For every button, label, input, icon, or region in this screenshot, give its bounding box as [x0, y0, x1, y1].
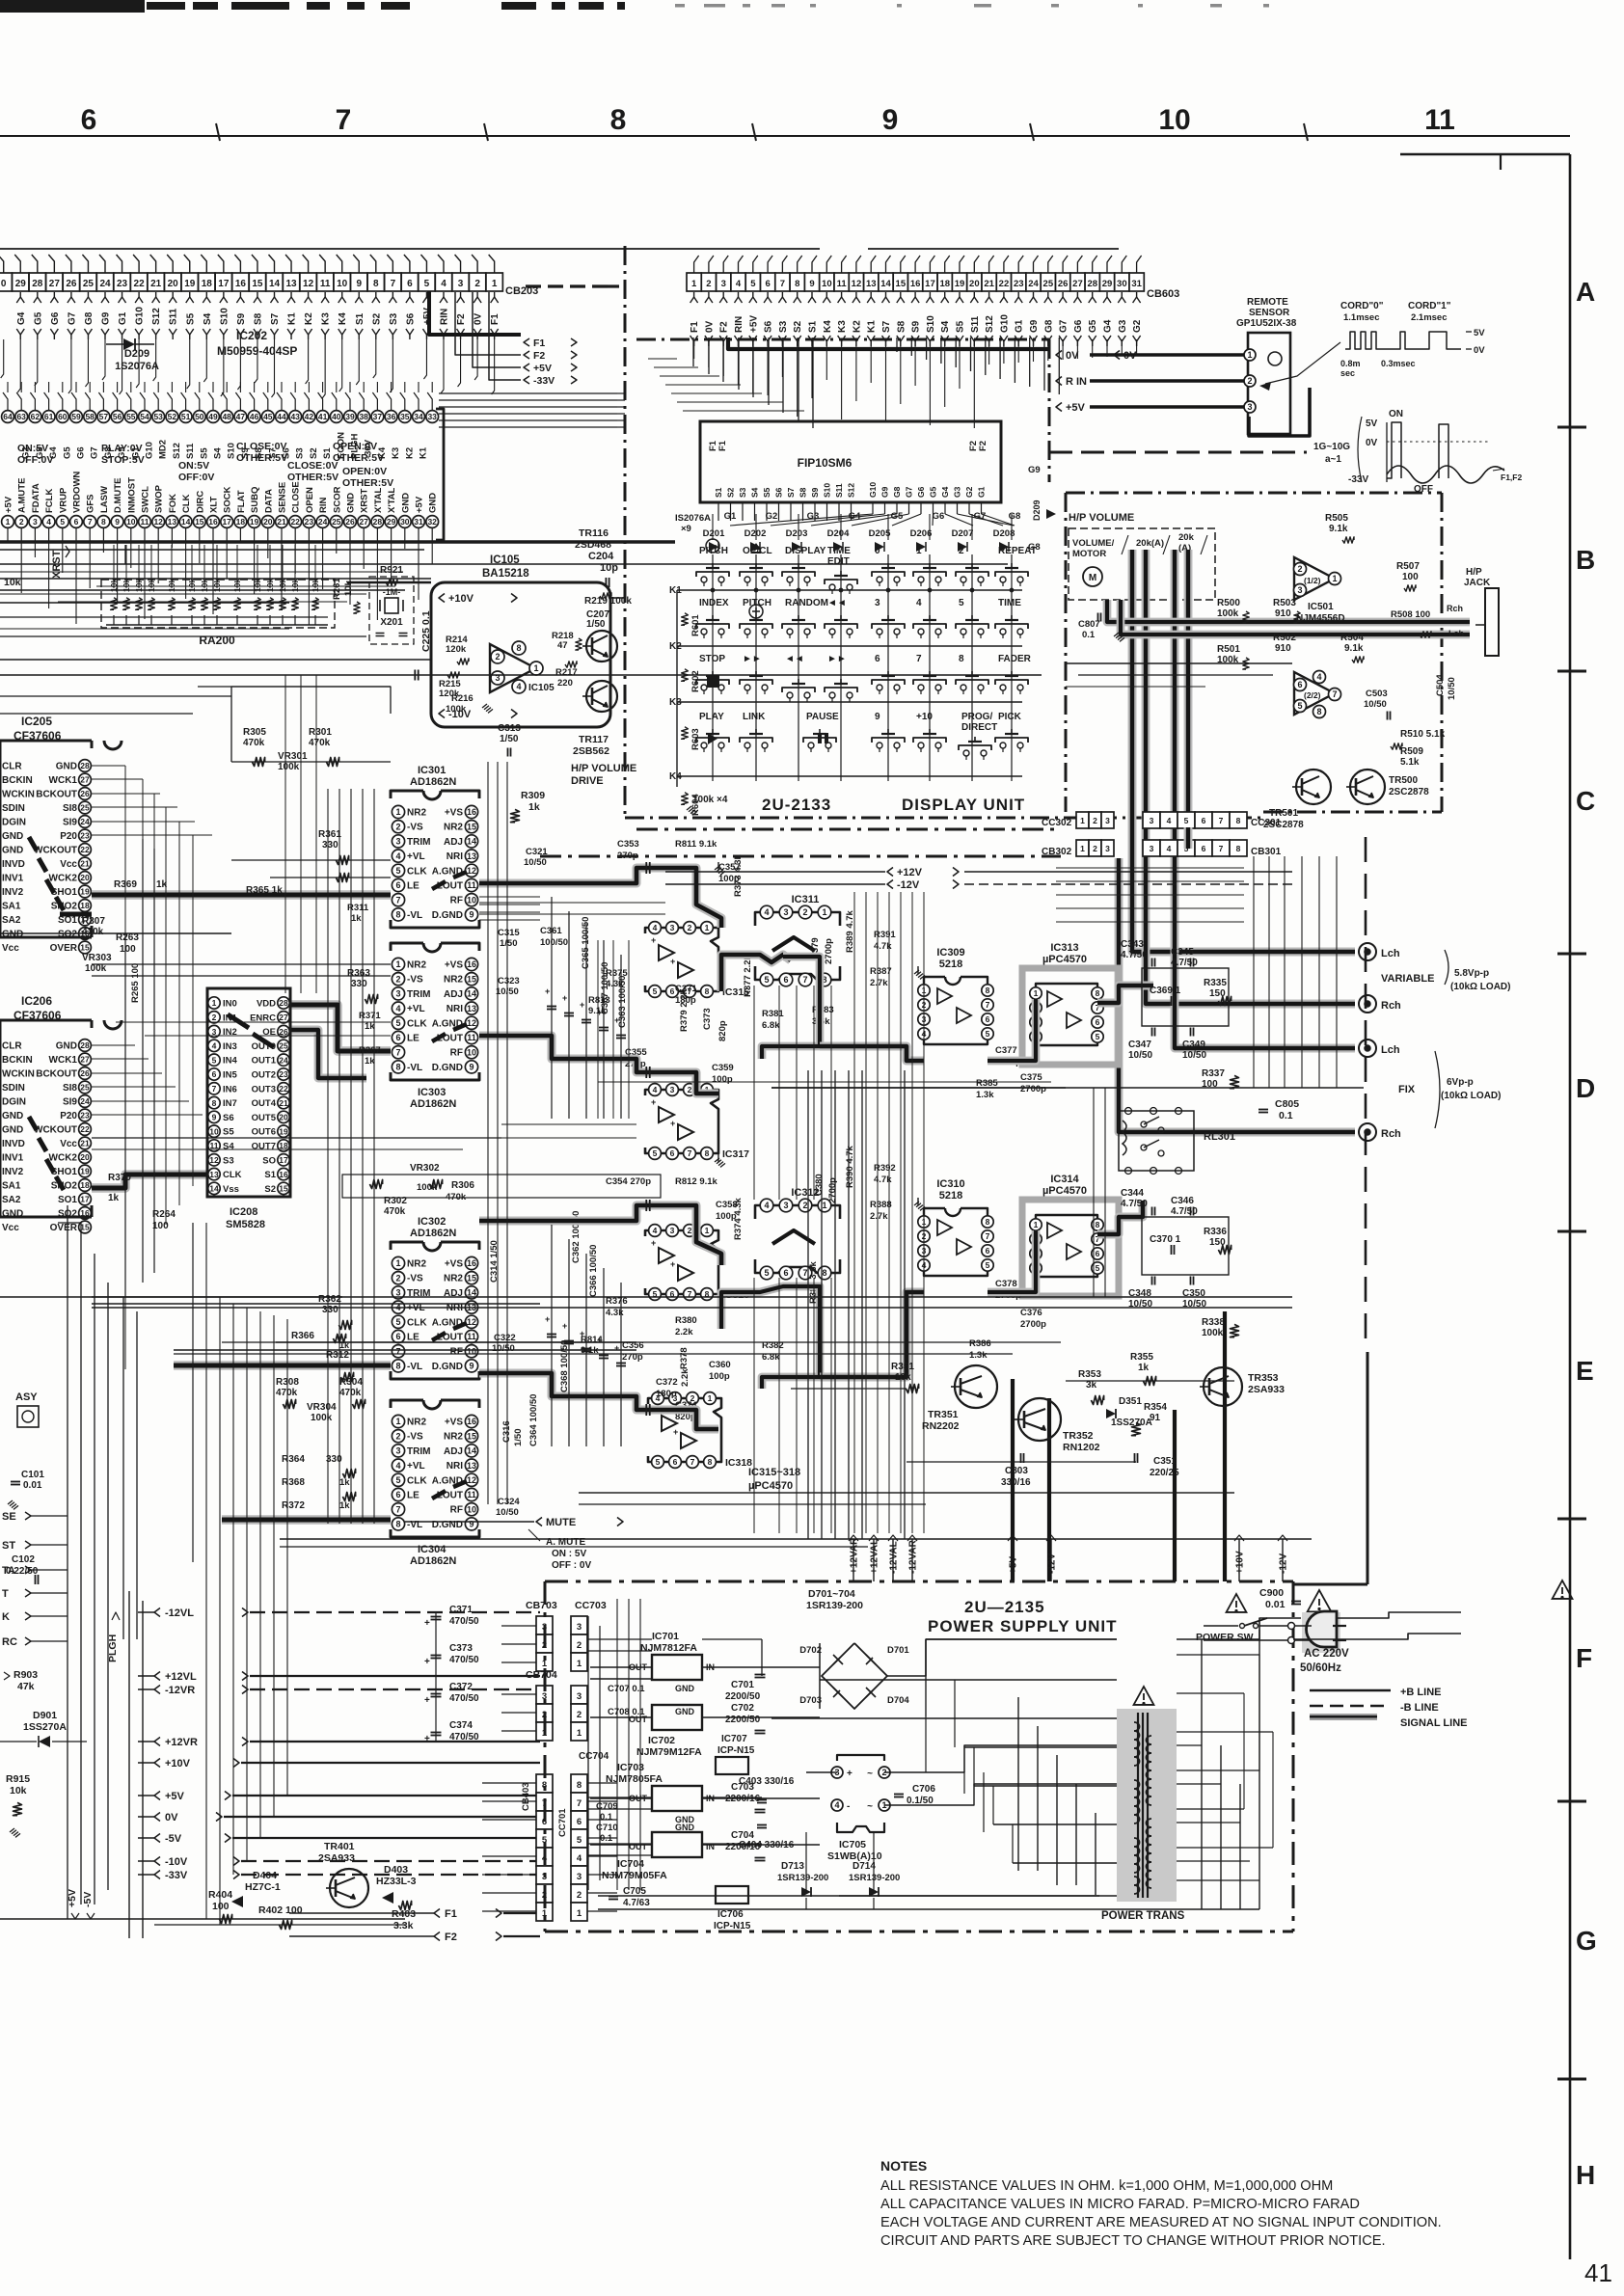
svg-text:G10: G10 [135, 307, 146, 325]
fuse IC706 [716, 1886, 748, 1904]
IC303 AD1862N [391, 943, 423, 951]
svg-text:5: 5 [986, 1260, 990, 1270]
column ruler [0, 135, 1570, 137]
svg-text:R510 5.1k: R510 5.1k [1400, 729, 1446, 740]
svg-text:PLAY:0V: PLAY:0V [101, 443, 143, 454]
svg-text:DATA: DATA [263, 489, 274, 513]
pitch plus symbol [749, 605, 763, 618]
svg-text:1.3k: 1.3k [969, 1350, 988, 1361]
svg-text:16: 16 [467, 1258, 476, 1268]
svg-text:TRIM: TRIM [407, 837, 430, 848]
svg-text:100k: 100k [1217, 655, 1239, 665]
svg-text:C101: C101 [21, 1470, 44, 1480]
DAC switch dashes [432, 881, 446, 889]
svg-text:21: 21 [279, 1098, 288, 1108]
svg-text:15: 15 [896, 279, 907, 289]
svg-text:6: 6 [986, 1014, 990, 1024]
svg-text:ADJ: ADJ [444, 1446, 463, 1457]
svg-text:4.7/50: 4.7/50 [1121, 1199, 1148, 1209]
svg-text:IC208: IC208 [230, 1206, 257, 1218]
svg-text:9: 9 [809, 279, 814, 289]
svg-text:CLK: CLK [407, 866, 427, 877]
svg-text:13: 13 [168, 517, 177, 527]
svg-text:INMOST: INMOST [126, 477, 137, 513]
svg-text:R813: R813 [588, 995, 610, 1006]
svg-text:100p: 100p [712, 1074, 733, 1085]
svg-text:+12VR: +12VR [165, 1737, 198, 1748]
svg-text:NJM79M05FA: NJM79M05FA [602, 1870, 667, 1881]
transformer right side wires [1177, 1654, 1259, 1656]
svg-text:S5: S5 [956, 320, 966, 333]
svg-text:OVER: OVER [50, 943, 78, 954]
svg-text:470/50: 470/50 [449, 1693, 479, 1704]
svg-text:1: 1 [492, 279, 498, 289]
svg-text:61: 61 [44, 412, 54, 421]
ground [717, 1154, 719, 1162]
svg-text:2200/50: 2200/50 [725, 1691, 761, 1702]
svg-text:6.8k: 6.8k [762, 1020, 780, 1031]
svg-text:X'TAL: X'TAL [387, 487, 397, 513]
svg-text:G: G [1576, 1926, 1597, 1956]
svg-text:TR351: TR351 [928, 1409, 959, 1420]
svg-text:6: 6 [670, 1148, 675, 1158]
svg-text:0.01: 0.01 [23, 1480, 42, 1491]
svg-text:+: + [673, 1427, 678, 1437]
op-amp IC501 2/2 [1294, 672, 1335, 715]
verticals right of DAC [1253, 856, 1255, 1088]
svg-text:S6: S6 [223, 1113, 234, 1123]
svg-text:C369 1: C369 1 [1150, 986, 1181, 996]
svg-text:8: 8 [1096, 1220, 1100, 1229]
svg-text:18: 18 [80, 901, 90, 910]
svg-text:17: 17 [80, 1195, 90, 1204]
svg-text:2200/50: 2200/50 [725, 1715, 761, 1725]
svg-text:GND: GND [2, 1111, 23, 1121]
svg-text:3: 3 [1150, 844, 1154, 853]
svg-text:RF: RF [450, 1505, 463, 1516]
H/P volume outer box [1065, 493, 1068, 812]
svg-text:24: 24 [279, 1055, 288, 1065]
switch IC IC312 [755, 1205, 840, 1219]
svg-text:M: M [1089, 573, 1096, 583]
svg-text:-12VR: -12VR [165, 1685, 195, 1696]
svg-text:12: 12 [467, 1475, 476, 1485]
svg-text:2: 2 [19, 517, 24, 527]
psu to power switch wires [1259, 1618, 1301, 1639]
svg-text:IC303: IC303 [418, 1087, 446, 1098]
svg-text:29: 29 [1102, 279, 1113, 289]
svg-text:D403: D403 [384, 1864, 408, 1876]
svg-text:ON:5V: ON:5V [178, 460, 209, 472]
svg-text:24: 24 [80, 817, 90, 826]
svg-text:18: 18 [202, 279, 213, 289]
svg-text:S8: S8 [798, 487, 808, 498]
svg-text:FIX: FIX [1398, 1084, 1416, 1095]
svg-text:S3: S3 [295, 447, 306, 459]
svg-text:32: 32 [427, 517, 437, 527]
transistor TR501 [1296, 770, 1331, 804]
svg-text:3: 3 [577, 1872, 582, 1882]
svg-text:DIRC: DIRC [195, 491, 205, 513]
svg-text:RF: RF [450, 896, 463, 906]
svg-text:IN4: IN4 [223, 1056, 238, 1067]
svg-text:G1: G1 [1015, 319, 1025, 333]
svg-text:9: 9 [875, 712, 880, 722]
svg-text:F1,F2: F1,F2 [1501, 473, 1522, 482]
svg-text:-12V: -12V [897, 879, 920, 891]
svg-text:1: 1 [6, 517, 11, 527]
svg-text:5: 5 [395, 1475, 400, 1485]
svg-text:26: 26 [80, 1068, 90, 1078]
svg-text:3: 3 [212, 1027, 217, 1037]
svg-text:K3: K3 [837, 320, 848, 333]
svg-text:VARIABLE: VARIABLE [1381, 973, 1434, 985]
svg-text:3: 3 [458, 279, 464, 289]
svg-text:C323: C323 [498, 976, 520, 986]
svg-text:25: 25 [332, 517, 341, 527]
svg-text:G5: G5 [33, 311, 43, 325]
svg-text:GND: GND [2, 831, 23, 842]
crystal X201 R921 [369, 577, 414, 644]
svg-text:330: 330 [322, 1305, 338, 1315]
horizontal collector above psu [280, 1538, 1312, 1540]
svg-text:-VL: -VL [407, 1063, 422, 1073]
svg-text:2700p: 2700p [1020, 1084, 1046, 1094]
svg-text:1k: 1k [528, 801, 540, 813]
svg-text:G9: G9 [101, 311, 112, 325]
svg-text:DISPLAY UNIT: DISPLAY UNIT [902, 796, 1025, 814]
svg-text:15: 15 [467, 822, 476, 831]
svg-text:-33V: -33V [165, 1870, 188, 1881]
svg-text:4: 4 [1167, 816, 1172, 825]
svg-text:a~1: a~1 [1325, 454, 1341, 465]
svg-text:6: 6 [212, 1069, 217, 1079]
svg-text:H/P VOLUME: H/P VOLUME [571, 763, 636, 774]
MUTE arrow [536, 1518, 542, 1526]
svg-text:SIGNAL LINE: SIGNAL LINE [1400, 1717, 1467, 1729]
svg-text:2: 2 [688, 1085, 692, 1094]
svg-text:+: + [424, 1695, 430, 1706]
svg-text:NR2: NR2 [407, 960, 426, 971]
svg-text:K1: K1 [867, 320, 878, 333]
svg-text:SDIN: SDIN [2, 1083, 25, 1094]
svg-text:1: 1 [577, 1728, 582, 1739]
transistor TR351 [955, 1365, 997, 1408]
svg-text:18: 18 [236, 517, 246, 527]
svg-text:1: 1 [708, 1393, 713, 1403]
svg-text:DISPLAY: DISPLAY [785, 546, 826, 556]
regulator IC704 [652, 1832, 702, 1857]
svg-text:9: 9 [469, 1520, 474, 1529]
switch IC IC311 [755, 912, 840, 926]
svg-text:RA200: RA200 [199, 634, 235, 647]
svg-text:10: 10 [467, 1346, 476, 1356]
dash-dot separator x648 upper [624, 246, 627, 339]
svg-text:S11: S11 [970, 315, 981, 333]
svg-text:-5V: -5V [82, 1892, 94, 1907]
svg-text:OFF : 0V: OFF : 0V [552, 1560, 591, 1571]
svg-text:CORD"0": CORD"0" [1340, 301, 1384, 311]
svg-text:G6: G6 [76, 446, 87, 459]
svg-text:2: 2 [802, 907, 807, 917]
svg-text:8: 8 [708, 1457, 713, 1467]
svg-text:8: 8 [822, 1268, 826, 1278]
svg-text:RF: RF [450, 1048, 463, 1059]
svg-text:OUT6: OUT6 [252, 1127, 276, 1138]
svg-text:2SD468: 2SD468 [575, 539, 611, 551]
svg-text:C353: C353 [617, 839, 639, 850]
svg-text:43: 43 [290, 412, 300, 421]
svg-text:INV2: INV2 [2, 1167, 24, 1177]
svg-text:Rch: Rch [1447, 604, 1463, 613]
svg-text:INVD: INVD [2, 1139, 25, 1149]
svg-text:4: 4 [653, 1226, 658, 1235]
svg-text:3.3k: 3.3k [393, 1920, 414, 1931]
op-amp IC105 [490, 644, 536, 692]
output terminal Rch variable [1359, 995, 1376, 1013]
svg-text:C504: C504 [1435, 674, 1446, 696]
transistor TR117 [586, 681, 617, 712]
svg-text:7: 7 [391, 279, 396, 289]
svg-text:330: 330 [322, 840, 338, 851]
svg-text:SHO2: SHO2 [51, 1181, 78, 1192]
svg-text:R903: R903 [14, 1669, 38, 1681]
svg-text:20: 20 [80, 873, 90, 882]
svg-text:G10: G10 [868, 482, 878, 498]
svg-text:TA: TA [2, 1565, 15, 1577]
vertical wires center [327, 789, 329, 1524]
svg-text:TIME: TIME [998, 598, 1021, 608]
svg-text:R503: R503 [1273, 598, 1296, 608]
svg-text:OFF:0V: OFF:0V [17, 454, 53, 466]
svg-text:8: 8 [101, 517, 106, 527]
svg-text:OTHER:5V: OTHER:5V [236, 452, 287, 464]
svg-text:+5V: +5V [165, 1791, 185, 1802]
svg-text:D701~704: D701~704 [808, 1588, 855, 1600]
svg-text:16: 16 [235, 279, 247, 289]
svg-text:+: + [580, 1329, 584, 1338]
svg-text:10k: 10k [4, 577, 21, 588]
wires IC105 [347, 581, 431, 584]
rectifier IC705 [837, 1755, 884, 1761]
svg-text:0V: 0V [165, 1812, 178, 1823]
svg-text:INVD: INVD [2, 859, 25, 870]
svg-text:POWER TRANS: POWER TRANS [1101, 1910, 1185, 1922]
svg-text:C347: C347 [1128, 1040, 1151, 1050]
svg-text:NR2: NR2 [444, 975, 463, 986]
svg-text:D209: D209 [124, 348, 149, 360]
svg-text:R508 100: R508 100 [1391, 609, 1430, 620]
svg-text:27: 27 [80, 1055, 90, 1065]
svg-text:C375: C375 [1020, 1072, 1042, 1083]
svg-text:R386: R386 [969, 1338, 991, 1349]
svg-text:S5: S5 [762, 487, 771, 498]
svg-text:8: 8 [705, 1148, 710, 1158]
svg-text:1k: 1k [108, 1193, 120, 1203]
svg-text:270p: 270p [617, 851, 638, 861]
svg-text:R504: R504 [1340, 633, 1364, 643]
svg-text:F1: F1 [533, 338, 545, 349]
svg-text:+5V: +5V [533, 363, 552, 374]
svg-text:C706: C706 [912, 1784, 935, 1795]
svg-text:R811 9.1k: R811 9.1k [675, 839, 717, 850]
svg-text:25: 25 [279, 1041, 288, 1051]
svg-text:+VL: +VL [407, 851, 425, 862]
svg-text:G8: G8 [1009, 511, 1021, 522]
svg-text:G2: G2 [964, 486, 974, 498]
svg-text:G6: G6 [933, 511, 945, 522]
svg-text:29: 29 [387, 517, 396, 527]
left bus lines under IC202 [0, 563, 415, 565]
output terminal Lch fix [1359, 1040, 1376, 1057]
svg-text:C346: C346 [1171, 1196, 1194, 1206]
svg-text:13: 13 [467, 1461, 476, 1471]
op-amp IC316 [645, 1230, 718, 1294]
svg-text:3: 3 [395, 989, 400, 999]
svg-text:INV1: INV1 [2, 874, 24, 884]
svg-text:OUT7: OUT7 [252, 1142, 276, 1152]
svg-text:1SR139-200: 1SR139-200 [806, 1600, 863, 1611]
svg-text:CLOSE:0V: CLOSE:0V [287, 460, 338, 472]
svg-text:18: 18 [80, 1180, 90, 1190]
svg-text:470k: 470k [309, 738, 331, 748]
svg-text:C102: C102 [12, 1554, 35, 1565]
svg-text:1: 1 [395, 1258, 400, 1268]
svg-text:8: 8 [212, 1098, 217, 1108]
svg-text:Rch: Rch [1381, 1128, 1401, 1140]
svg-text:37: 37 [373, 412, 383, 421]
svg-text:TRIM: TRIM [407, 1446, 430, 1457]
svg-text:15: 15 [252, 279, 263, 289]
svg-text:46: 46 [250, 412, 259, 421]
svg-text:+: + [651, 1097, 656, 1107]
svg-text:2: 2 [577, 1710, 582, 1720]
svg-text:REMOTE: REMOTE [1247, 297, 1288, 308]
svg-text:13: 13 [866, 279, 877, 289]
svg-text:R390 4.7k: R390 4.7k [845, 1145, 855, 1188]
svg-text:C370 1: C370 1 [1150, 1234, 1181, 1245]
svg-text:17: 17 [218, 279, 230, 289]
svg-text:C503: C503 [1366, 689, 1388, 699]
svg-text:10/50: 10/50 [1128, 1050, 1152, 1061]
svg-text:TR352: TR352 [1063, 1430, 1094, 1442]
svg-text:22: 22 [80, 1124, 90, 1134]
svg-text:2: 2 [395, 1273, 400, 1283]
svg-text:7: 7 [395, 895, 400, 905]
svg-text:+: + [597, 1008, 602, 1017]
svg-text:2: 2 [395, 1431, 400, 1441]
svg-text:19: 19 [80, 1167, 90, 1176]
vertical wires left-mid [124, 766, 126, 1369]
svg-text:Vcc: Vcc [2, 1223, 19, 1233]
svg-text:PROG/: PROG/ [961, 712, 992, 722]
svg-text:14: 14 [209, 1184, 219, 1194]
psu internal wires extra [588, 1638, 652, 1640]
svg-text:S10: S10 [219, 308, 230, 325]
svg-text:S5: S5 [199, 447, 209, 459]
svg-text:R302: R302 [384, 1196, 407, 1206]
svg-text:S12: S12 [847, 483, 856, 498]
svg-text:+: + [847, 1769, 853, 1779]
svg-text:91: 91 [1150, 1413, 1161, 1423]
svg-text:R404: R404 [208, 1889, 232, 1901]
svg-text:1SR139-200: 1SR139-200 [849, 1873, 900, 1883]
svg-text:1/50: 1/50 [500, 938, 518, 949]
svg-text:29: 29 [15, 279, 27, 289]
svg-text:IN0: IN0 [223, 999, 237, 1010]
svg-text:-1M-: -1M- [383, 587, 401, 597]
svg-text:9.1k: 9.1k [1329, 524, 1348, 534]
svg-text:D202: D202 [744, 528, 767, 539]
svg-text:R364: R364 [282, 1454, 305, 1465]
svg-text:-VS: -VS [407, 1274, 423, 1284]
fan FIP G pins to drivers [730, 514, 873, 526]
svg-text:19: 19 [184, 279, 196, 289]
IC301 AD1862N [391, 791, 423, 798]
svg-text:C373: C373 [702, 1008, 713, 1030]
svg-text:8: 8 [1096, 988, 1100, 998]
svg-text:22: 22 [134, 279, 146, 289]
vertical bundle through G row [616, 1599, 618, 1890]
regulator IC702 [652, 1705, 702, 1730]
svg-text:8: 8 [577, 1780, 582, 1791]
svg-text:IS2076A: IS2076A [675, 513, 711, 524]
svg-text:2: 2 [474, 279, 480, 289]
svg-text:IC706: IC706 [717, 1909, 744, 1920]
svg-text:+: + [424, 1618, 430, 1629]
svg-text:S6: S6 [764, 320, 774, 333]
svg-text:ASY: ASY [15, 1391, 38, 1403]
wires IC205 right to DAC [92, 765, 125, 767]
right page border [1569, 154, 1572, 2259]
svg-text:G8: G8 [1043, 319, 1054, 333]
wires center-left [0, 635, 366, 637]
svg-text:0: 0 [1, 279, 7, 289]
signal dashes IC206 [29, 1117, 37, 1130]
svg-text:64: 64 [3, 412, 13, 421]
svg-text:R355: R355 [1130, 1352, 1153, 1363]
svg-text:2.7k: 2.7k [870, 978, 888, 988]
svg-text:1: 1 [1332, 574, 1337, 583]
svg-text:ADJ: ADJ [444, 837, 463, 848]
svg-text:BCKIN: BCKIN [2, 775, 33, 786]
svg-text:8: 8 [516, 643, 521, 653]
svg-text:+: + [651, 935, 656, 945]
svg-text:F1: F1 [717, 440, 728, 451]
svg-text:CC302: CC302 [1042, 818, 1072, 828]
svg-text:S3: S3 [389, 312, 399, 325]
svg-text:1/50: 1/50 [586, 619, 606, 630]
svg-text:µPC4570: µPC4570 [1042, 954, 1087, 965]
svg-text:R381: R381 [762, 1009, 784, 1019]
svg-text:R301: R301 [309, 727, 332, 738]
svg-text:+10V: +10V [448, 593, 474, 605]
svg-text:1: 1 [1080, 844, 1085, 853]
svg-text:20k(A): 20k(A) [1136, 538, 1164, 549]
svg-text:5218: 5218 [939, 1190, 962, 1202]
svg-text:R500: R500 [1217, 598, 1240, 608]
svg-text:47: 47 [236, 412, 246, 421]
svg-text:62: 62 [31, 412, 41, 421]
svg-text:16: 16 [910, 279, 921, 289]
svg-text:100k: 100k [1217, 608, 1239, 619]
wire bus CB603 to FIP [692, 338, 694, 366]
svg-text:11: 11 [837, 279, 848, 289]
svg-text:PICK: PICK [998, 712, 1022, 722]
svg-text:CB703: CB703 [526, 1600, 557, 1611]
svg-text:7: 7 [802, 975, 807, 985]
svg-text:SI8: SI8 [63, 803, 77, 814]
